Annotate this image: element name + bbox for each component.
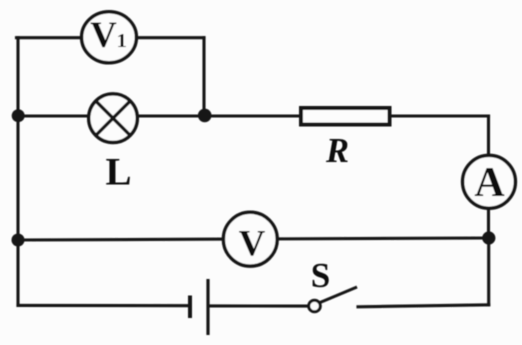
voltmeter V (223, 212, 277, 266)
svg-text:R: R (325, 132, 349, 170)
wire left vertical top segment (16, 38, 19, 116)
wire middle horizontal through voltmeter (18, 238, 489, 240)
svg-text:A: A (474, 160, 505, 206)
node junction left lower (12, 234, 25, 247)
battery (190, 279, 208, 335)
svg-text:1: 1 (117, 30, 127, 52)
wire battery to switch (209, 304, 309, 307)
voltmeter V1 (82, 12, 137, 63)
wire main horizontal through lamp and resistor (17, 114, 489, 117)
svg-text:L: L (105, 150, 131, 193)
wire right vertical bottom segment (487, 238, 490, 305)
wire right vertical through ammeter (487, 116, 490, 238)
switch S (309, 287, 357, 312)
wire bottom horizontal to battery (18, 304, 190, 307)
node junction left upper (12, 109, 25, 122)
ammeter A (463, 155, 516, 208)
wire left vertical middle segment (16, 116, 19, 240)
node junction right (482, 231, 495, 244)
resistor R (301, 108, 390, 125)
wire left vertical bottom segment (16, 240, 19, 305)
svg-text:S: S (311, 256, 330, 295)
wire top horizontal (V1 branch) (17, 36, 205, 39)
wire switch to right corner (358, 305, 489, 307)
svg-text:V: V (239, 223, 266, 264)
wire V1 branch right vertical (202, 38, 205, 116)
node junction lamp right (198, 109, 212, 123)
lamp L (89, 94, 138, 143)
svg-text:V: V (90, 15, 117, 56)
